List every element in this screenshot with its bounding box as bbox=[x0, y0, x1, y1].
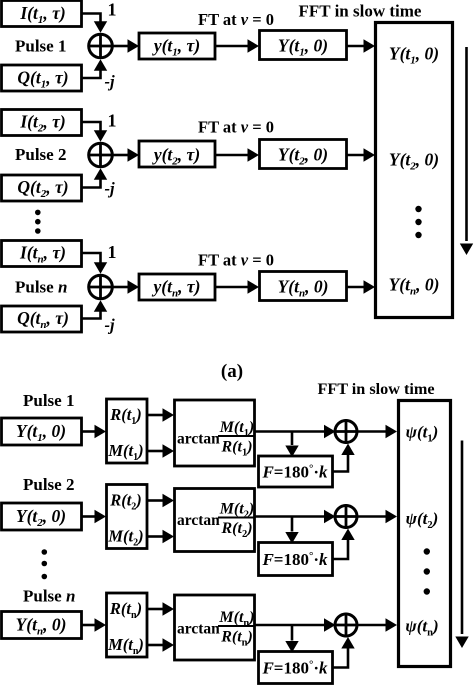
wire F box to adder (row n) bbox=[333, 637, 355, 668]
svg-text:Pulse 1: Pulse 1 bbox=[23, 391, 74, 410]
box Y(tn, 0) bbox=[260, 272, 347, 301]
wire R(tn) to arctan bbox=[147, 602, 174, 615]
svg-text:R(tn): R(tn) bbox=[109, 599, 142, 621]
label Pulse 1 bbox=[15, 37, 66, 56]
svg-text:FT at ν = 0: FT at ν = 0 bbox=[198, 251, 274, 270]
label FFT in slow time (part b) bbox=[317, 380, 434, 398]
svg-text:Pulse 2: Pulse 2 bbox=[23, 475, 74, 494]
wire branch to F box (row n) bbox=[285, 625, 298, 653]
label 1 (row n) bbox=[108, 242, 117, 262]
slow-time FFT direction arrow (part a) bbox=[460, 47, 473, 255]
wire branch to F box (row 2) bbox=[285, 517, 298, 544]
label Y(t1,0) in buffer bbox=[389, 44, 439, 67]
label Pulse 2 bbox=[15, 145, 66, 164]
slow-time buffer box (part a) bbox=[376, 23, 453, 318]
caption (a) bbox=[221, 361, 243, 382]
ellipsis in psi buffer bbox=[424, 548, 430, 594]
label Y(t2,0) in buffer bbox=[389, 150, 439, 173]
wire Q(t1) to adder bbox=[82, 59, 108, 78]
svg-text:I(t1, τ): I(t1, τ) bbox=[19, 3, 65, 26]
wire M(t1) to arctan bbox=[147, 444, 174, 457]
label psi(t1) bbox=[406, 423, 439, 445]
box arctan M(tn)/R(tn) bbox=[175, 595, 255, 660]
box Q(t1, tau) bbox=[2, 65, 82, 91]
adder (row n) bbox=[89, 275, 113, 299]
box y(tn, tau) bbox=[139, 274, 215, 300]
box Q(t2, tau) bbox=[2, 175, 82, 201]
svg-text:-j: -j bbox=[105, 179, 115, 198]
svg-text:F=180°·k: F=180°·k bbox=[261, 659, 328, 678]
svg-text:Pulse n: Pulse n bbox=[23, 587, 75, 606]
wire F box to adder (row 2) bbox=[333, 529, 355, 560]
box F=180k (row n) bbox=[259, 652, 333, 684]
adder (part b row 1) bbox=[335, 419, 357, 444]
wire adder to y(t2) box bbox=[112, 148, 139, 161]
svg-text:FT at ν = 0: FT at ν = 0 bbox=[198, 10, 274, 29]
label -j (row 1) bbox=[105, 72, 115, 91]
wire Y(t1) to slow-time buffer bbox=[347, 39, 376, 52]
box Y(t1, 0) bbox=[260, 31, 347, 60]
wire arctan to adder (row 1) bbox=[255, 425, 336, 438]
svg-text:R(t1): R(t1) bbox=[109, 405, 142, 427]
box R(t1) / M(t1) bbox=[107, 399, 148, 463]
box R(tn) / M(tn) bbox=[107, 593, 148, 657]
wire M(t2) to arctan bbox=[147, 530, 174, 543]
ellipsis in buffer (part a) bbox=[415, 206, 421, 238]
box arctan M(t2)/R(t2) bbox=[175, 489, 255, 552]
svg-text:FT at ν = 0: FT at ν = 0 bbox=[198, 118, 274, 137]
wire R(t2) to arctan bbox=[147, 494, 174, 507]
ellipsis left column (part a) bbox=[35, 210, 41, 234]
wire adder to y(tn) box bbox=[112, 280, 139, 293]
box y(t2, tau) bbox=[139, 141, 215, 168]
wire y(t2) to Y(t2) bbox=[215, 148, 259, 161]
svg-text:arctan: arctan bbox=[177, 431, 220, 448]
wire R(t1) to arctan bbox=[147, 408, 174, 421]
wire F box to adder (row 1) bbox=[333, 444, 355, 472]
svg-text:M(t2): M(t2) bbox=[107, 527, 143, 549]
wire adder to psi buffer (row 2) bbox=[357, 510, 397, 523]
adder (row 2) bbox=[89, 143, 113, 167]
svg-text:F=180°·k: F=180°·k bbox=[261, 463, 328, 482]
wire adder to psi buffer (row 1) bbox=[357, 425, 397, 438]
svg-text:-j: -j bbox=[105, 72, 115, 91]
svg-text:Pulse 1: Pulse 1 bbox=[15, 37, 66, 56]
wire I(t1) to adder bbox=[82, 14, 108, 33]
wire adder to y(t1) box bbox=[112, 39, 139, 52]
label FT at v=0 (row 2) bbox=[198, 118, 274, 137]
adder (row 1) bbox=[89, 34, 113, 58]
svg-text:FFT in slow time: FFT in slow time bbox=[299, 2, 422, 21]
svg-text:R(t2): R(t2) bbox=[109, 491, 142, 513]
svg-text:1: 1 bbox=[108, 0, 117, 20]
box Y(t2, 0) (part b) bbox=[2, 503, 82, 530]
label -j (row 2) bbox=[105, 179, 115, 198]
svg-text:FFT in slow time: FFT in slow time bbox=[317, 380, 434, 398]
label FT at v=0 (row n) bbox=[198, 251, 274, 270]
wire Y(tn) to slow-time buffer bbox=[347, 280, 376, 293]
box I(t1, tau) bbox=[2, 1, 82, 27]
wire Y(t2,0) to R/M box bbox=[82, 510, 107, 523]
label -j (row n) bbox=[105, 316, 115, 335]
label Pulse 2 (part b) bbox=[23, 475, 74, 494]
wire I(tn) to adder bbox=[82, 253, 108, 274]
svg-text:I(t2, τ): I(t2, τ) bbox=[19, 112, 65, 135]
adder (part b row 2) bbox=[335, 504, 357, 529]
ellipsis left column (part b) bbox=[42, 549, 48, 579]
svg-text:ψ(tn): ψ(tn) bbox=[405, 617, 438, 639]
box Q(tn, tau) bbox=[2, 306, 82, 332]
label FT at v=0 (row 1) bbox=[198, 10, 274, 29]
adder (part b row n) bbox=[335, 613, 357, 638]
wire adder to psi buffer (row n) bbox=[357, 618, 397, 631]
wire branch to F box (row 1) bbox=[285, 432, 298, 458]
svg-text:F=180°·k: F=180°·k bbox=[261, 550, 328, 569]
wire Y(t2) to slow-time buffer bbox=[347, 148, 376, 161]
box R(t2) / M(t2) bbox=[107, 485, 148, 549]
label 1 (row 1) bbox=[108, 0, 117, 20]
label Y(tn,0) in buffer bbox=[389, 275, 440, 298]
box F=180k (row 2) bbox=[259, 543, 333, 576]
svg-text:1: 1 bbox=[108, 242, 117, 262]
wire Y(tn,0) to R/M box bbox=[82, 618, 107, 631]
box I(tn, tau) bbox=[2, 241, 82, 267]
svg-text:1: 1 bbox=[108, 111, 117, 131]
label Pulse 1 (part b) bbox=[23, 391, 74, 410]
wire Q(t2) to adder bbox=[82, 168, 108, 187]
svg-text:Pulse n: Pulse n bbox=[15, 278, 67, 297]
box Y(t2, 0) bbox=[260, 140, 347, 169]
label Pulse n bbox=[15, 278, 67, 297]
svg-text:ψ(t2): ψ(t2) bbox=[406, 509, 439, 531]
svg-text:Pulse 2: Pulse 2 bbox=[15, 145, 66, 164]
label psi(t2) bbox=[406, 509, 439, 531]
box Y(t1, 0) (part b) bbox=[2, 418, 82, 445]
psi buffer box (part b) bbox=[399, 401, 451, 667]
svg-text:arctan: arctan bbox=[177, 621, 220, 638]
slow-time FFT direction arrow (part b) bbox=[455, 441, 468, 649]
svg-text:M(tn): M(tn) bbox=[107, 635, 144, 657]
svg-text:arctan: arctan bbox=[177, 512, 220, 529]
wire I(t2) to adder bbox=[82, 122, 108, 142]
wire arctan to adder (row n) bbox=[255, 618, 336, 631]
svg-text:-j: -j bbox=[105, 316, 115, 335]
box Y(tn, 0) (part b) bbox=[2, 612, 82, 639]
svg-text:(a): (a) bbox=[221, 361, 243, 382]
box F=180k (row 1) bbox=[259, 456, 333, 487]
wire M(tn) to arctan bbox=[147, 638, 174, 651]
svg-text:M(t1): M(t1) bbox=[107, 441, 143, 463]
label 1 (row 2) bbox=[108, 111, 117, 131]
label psi(tn) bbox=[405, 617, 438, 639]
wire Q(tn) to adder bbox=[82, 300, 108, 318]
wire Y(t1,0) to R/M box bbox=[82, 425, 107, 438]
box arctan M(t1)/R(t1) bbox=[175, 400, 255, 466]
box y(t1, tau) bbox=[139, 33, 215, 59]
wire y(t1) to Y(t1) bbox=[215, 39, 259, 52]
box I(t2, tau) bbox=[2, 110, 82, 136]
svg-text:ψ(t1): ψ(t1) bbox=[406, 423, 439, 445]
wire arctan to adder (row 2) bbox=[255, 510, 336, 523]
label FFT in slow time (part a) bbox=[299, 2, 422, 21]
wire y(tn) to Y(tn) bbox=[215, 280, 259, 293]
label Pulse n (part b) bbox=[23, 587, 75, 606]
